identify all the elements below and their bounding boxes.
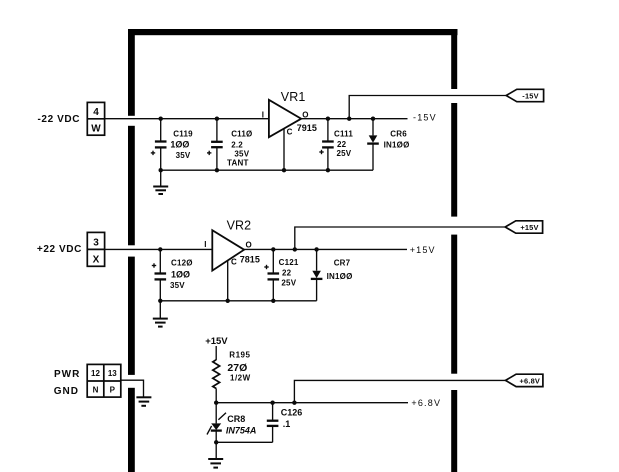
svg-text:TANT: TANT xyxy=(227,159,249,168)
svg-text:+15V: +15V xyxy=(520,223,538,232)
svg-text:+15V: +15V xyxy=(205,336,228,347)
wire VR1 output to -15V xyxy=(301,118,407,120)
capacitor C111 xyxy=(319,119,333,171)
junction C126 top xyxy=(270,401,274,405)
flag -15V xyxy=(506,89,543,101)
diode CR6 xyxy=(367,119,379,171)
C110 value labels xyxy=(227,130,252,168)
svg-text:25V: 25V xyxy=(337,149,352,158)
svg-text:C: C xyxy=(231,258,237,267)
svg-text:3: 3 xyxy=(93,238,99,249)
svg-text:2.2: 2.2 xyxy=(231,141,243,150)
svg-text:X: X xyxy=(93,255,100,266)
svg-text:CR7: CR7 xyxy=(334,259,351,268)
svg-text:-15V: -15V xyxy=(413,113,437,123)
junction C119 top xyxy=(159,117,163,121)
wire GND to chassis ground xyxy=(121,380,144,397)
resistor R195 xyxy=(213,360,220,389)
C111 value labels xyxy=(334,130,353,159)
svg-text:IN754A: IN754A xyxy=(226,426,257,436)
ground under CR8 xyxy=(208,442,223,467)
svg-text:C111: C111 xyxy=(334,130,353,139)
svg-text:35V: 35V xyxy=(234,150,249,159)
svg-text:C11Ø: C11Ø xyxy=(231,130,252,139)
bottom rail section 2 xyxy=(160,300,316,302)
R195 value labels xyxy=(227,351,250,383)
module border left bar segment 3 xyxy=(128,257,135,375)
junction rail C110 xyxy=(215,168,219,172)
bottom rail section 1 xyxy=(161,169,373,171)
ground under C120 xyxy=(153,301,168,327)
module border left bar segment 2 xyxy=(128,126,135,246)
svg-text:VR2: VR2 xyxy=(227,219,252,233)
svg-text:+6.8V: +6.8V xyxy=(520,376,541,385)
junction +15V flag tap xyxy=(293,247,297,251)
wire R195 to node xyxy=(215,389,217,403)
capacitor C110 xyxy=(207,119,223,171)
wire +15V to R195 xyxy=(215,346,217,360)
wire +6.8V node rail xyxy=(216,402,408,404)
svg-text:C119: C119 xyxy=(173,130,193,139)
svg-text:R195: R195 xyxy=(229,351,250,360)
capacitor C126 xyxy=(267,403,279,443)
svg-text:12: 12 xyxy=(91,369,100,378)
svg-text:+22 VDC: +22 VDC xyxy=(37,244,82,255)
zener diode CR8 xyxy=(207,403,226,443)
wire +15V flag tap xyxy=(295,227,506,249)
svg-text:1ØØ: 1ØØ xyxy=(170,140,189,150)
junction rail C121 xyxy=(271,299,275,303)
junction rail C111 xyxy=(326,168,330,172)
module border right bar segment 1 xyxy=(451,32,457,89)
svg-text:IN1ØØ: IN1ØØ xyxy=(384,141,410,150)
svg-text:O: O xyxy=(302,110,308,119)
svg-text:N: N xyxy=(93,385,99,394)
junction C121 top xyxy=(271,247,275,251)
svg-text:4: 4 xyxy=(93,107,99,118)
capacitor C119 xyxy=(151,119,167,171)
module border right bar segment 4 xyxy=(451,390,457,472)
svg-text:-22 VDC: -22 VDC xyxy=(38,114,81,125)
connector pins 12/13/N/P box xyxy=(87,364,121,397)
C126 value labels xyxy=(281,408,303,429)
junction CR7 top xyxy=(314,247,318,251)
CR8 value labels xyxy=(226,414,257,436)
junction rail C119 xyxy=(159,168,163,172)
wire input -22VDC to VR1 xyxy=(105,118,269,120)
CR6 value labels xyxy=(384,130,410,150)
wire VR2 output to +15V xyxy=(244,248,407,250)
junction C120 top xyxy=(158,247,162,251)
wire -15V flag tap xyxy=(349,96,506,119)
module border left bar segment 4 xyxy=(128,388,135,472)
wire +6.8V flag tap xyxy=(294,380,505,402)
svg-text:CR6: CR6 xyxy=(390,130,407,139)
svg-text:C126: C126 xyxy=(281,408,303,418)
svg-text:13: 13 xyxy=(108,369,117,378)
flag +6.8V xyxy=(506,374,543,386)
module border top bar xyxy=(128,29,458,35)
svg-text:22: 22 xyxy=(337,140,347,149)
svg-text:PWR: PWR xyxy=(54,369,80,380)
svg-text:7815: 7815 xyxy=(240,254,260,264)
svg-text:1ØØ: 1ØØ xyxy=(171,270,190,280)
junction +6.8V flag tap xyxy=(292,401,296,405)
svg-text:.1: .1 xyxy=(283,419,291,429)
C121 value labels xyxy=(279,258,299,287)
regulator VR1 7915 xyxy=(269,100,301,170)
C120 value labels xyxy=(170,259,193,290)
svg-text:35V: 35V xyxy=(176,151,191,160)
module border left bar segment 1 xyxy=(128,32,135,116)
svg-text:22: 22 xyxy=(282,269,292,278)
svg-text:IN1ØØ: IN1ØØ xyxy=(327,272,353,281)
junction C110 top xyxy=(215,117,219,121)
svg-text:GND: GND xyxy=(54,386,79,397)
svg-text:1/2W: 1/2W xyxy=(230,373,251,382)
CR7 value labels xyxy=(327,259,353,281)
svg-text:I: I xyxy=(262,110,264,119)
module border right bar segment 3 xyxy=(451,235,457,374)
svg-text:CR8: CR8 xyxy=(227,414,245,424)
flag +15V xyxy=(505,221,542,233)
connector pins 3/X box xyxy=(87,232,104,266)
junction rail C120 xyxy=(158,299,162,303)
junction C111 top xyxy=(326,117,330,121)
junction R195/CR8 xyxy=(214,401,218,405)
svg-text:C121: C121 xyxy=(279,258,299,267)
diode CR7 xyxy=(311,249,323,300)
ground under C119 xyxy=(153,170,168,194)
junction -15V flag tap xyxy=(347,117,351,121)
svg-text:O: O xyxy=(246,241,252,250)
wire input +22VDC to VR2 xyxy=(105,248,213,250)
svg-text:35V: 35V xyxy=(170,281,185,290)
svg-text:VR1: VR1 xyxy=(281,90,306,104)
svg-text:25V: 25V xyxy=(281,278,296,287)
ground at GND pins xyxy=(136,397,151,406)
junction CR6 top xyxy=(371,117,375,121)
svg-text:C12Ø: C12Ø xyxy=(171,259,193,268)
svg-text:C: C xyxy=(287,128,293,137)
connector pins 4/W box xyxy=(87,102,104,135)
junction rail CR8 xyxy=(214,440,218,444)
svg-text:27Ø: 27Ø xyxy=(227,362,247,374)
C119 value labels xyxy=(170,130,193,160)
svg-text:W: W xyxy=(91,124,101,135)
junction rail VR1 common xyxy=(282,168,286,172)
regulator VR2 7815 xyxy=(212,230,244,301)
svg-text:I: I xyxy=(204,240,206,249)
svg-text:-15V: -15V xyxy=(522,91,538,100)
capacitor C121 xyxy=(264,249,279,300)
svg-text:7915: 7915 xyxy=(297,123,317,133)
junction rail VR2 common xyxy=(226,299,230,303)
module border right bar segment 2 xyxy=(451,103,457,217)
capacitor C120 xyxy=(152,249,166,300)
svg-text:+15V: +15V xyxy=(410,245,436,255)
svg-text:P: P xyxy=(110,385,116,394)
svg-text:+6.8V: +6.8V xyxy=(411,398,441,408)
bottom rail section 3 xyxy=(216,441,272,443)
